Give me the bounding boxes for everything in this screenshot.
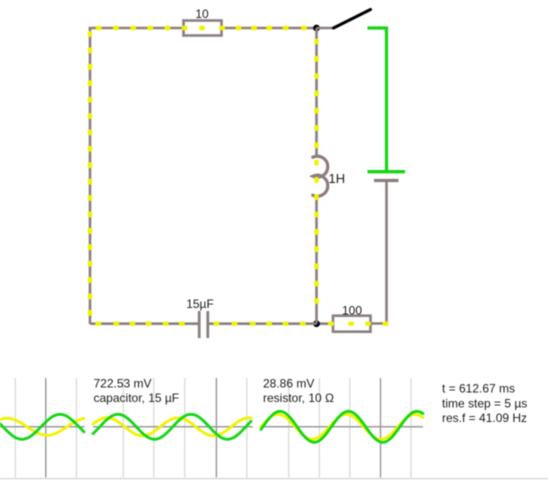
switch S1 open blade	[334, 10, 371, 29]
scope pane2 label line1	[94, 377, 152, 391]
scope trace pane1 voltage (green)	[0, 414, 84, 439]
scope center line pane 2	[93, 426, 253, 428]
resistor R1 10 ohm (box)	[184, 21, 222, 36]
junction node B (bottom)	[313, 320, 320, 327]
scope bottom border	[0, 478, 548, 480]
inductor L1 value label 1H	[329, 171, 346, 186]
capacitor C1 value label 15uF	[186, 297, 214, 311]
svg-text:res.f = 41.09 Hz: res.f = 41.09 Hz	[442, 411, 527, 425]
info text resonant frequency	[442, 411, 527, 425]
svg-text:1H: 1H	[329, 171, 346, 186]
junction node A (top)	[313, 25, 320, 32]
wire battery negative to resistor R2	[371, 181, 387, 324]
capacitor C1 left plate	[198, 311, 201, 338]
svg-text:t = 612.67 ms: t = 612.67 ms	[442, 382, 515, 396]
scope trace pane1 current (yellow)	[0, 418, 84, 435]
info text t	[442, 382, 515, 396]
svg-text:100: 100	[342, 304, 362, 318]
resistor R2 value label 100	[342, 304, 362, 318]
svg-text:722.53 mV: 722.53 mV	[94, 377, 152, 391]
scope trace pane2 voltage (green)	[93, 414, 251, 439]
scope pane2 label line2	[94, 391, 180, 405]
svg-text:capacitor, 15 µF: capacitor, 15 µF	[94, 391, 180, 405]
capacitor C1 right plate	[206, 311, 209, 338]
scope trace pane3 voltage (green)	[261, 411, 423, 442]
scope pane3 label line2	[263, 391, 334, 405]
battery V1 positive plate	[368, 170, 406, 173]
wire bottom stub to R2	[317, 322, 334, 325]
scope trace pane3 current (yellow)	[261, 414, 423, 439]
scope pane3 label line1	[263, 377, 314, 391]
svg-text:time step = 5 µs: time step = 5 µs	[442, 396, 527, 410]
scope gridlines pane 2	[123, 378, 247, 478]
wire middle upper (node A down)	[315, 28, 318, 157]
scope center line pane 1	[0, 426, 85, 428]
inductor L1 coil	[313, 156, 328, 196]
scope gridlines pane 3	[289, 378, 411, 478]
current dots (yellow)	[88, 26, 389, 326]
wire switch stub	[317, 27, 334, 30]
scope gridlines pane 1	[15, 378, 76, 478]
wire middle lower	[315, 195, 318, 324]
scope trace pane2 current (yellow)	[93, 418, 251, 436]
svg-text:resistor, 10 Ω: resistor, 10 Ω	[263, 391, 334, 405]
wire battery positive (green, high voltage)	[368, 28, 387, 170]
wire top right segment	[222, 27, 317, 30]
wire capacitor to node B	[208, 322, 317, 325]
svg-text:10: 10	[195, 7, 209, 21]
wire left side (node 0V)	[89, 28, 92, 324]
scope center line pane 3	[261, 426, 423, 428]
svg-text:15µF: 15µF	[186, 297, 214, 311]
wire top left segment	[89, 27, 184, 30]
info text time step	[442, 396, 527, 410]
wire bottom left to capacitor	[90, 322, 198, 325]
resistor R2 100 ohm (box)	[333, 316, 371, 332]
battery V1 negative plate	[374, 179, 399, 182]
resistor R1 value label 10	[195, 7, 209, 21]
svg-text:28.86 mV: 28.86 mV	[263, 377, 314, 391]
